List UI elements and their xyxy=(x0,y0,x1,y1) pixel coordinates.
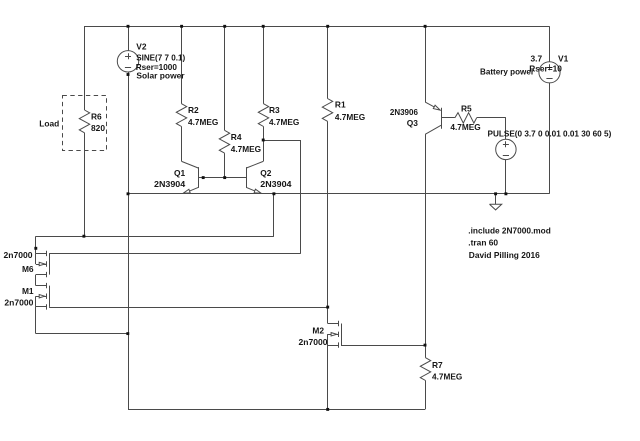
svg-text:.tran 60: .tran 60 xyxy=(468,238,498,248)
svg-text:R4: R4 xyxy=(231,132,242,142)
svg-text:4.7MEG: 4.7MEG xyxy=(432,372,462,382)
svg-text:Load: Load xyxy=(39,119,59,129)
svg-text:Q3: Q3 xyxy=(407,118,419,128)
svg-text:Rser=10: Rser=10 xyxy=(529,64,562,74)
svg-text:4.7MEG: 4.7MEG xyxy=(450,122,480,132)
svg-text:4.7MEG: 4.7MEG xyxy=(231,144,261,154)
svg-text:V1: V1 xyxy=(558,53,569,63)
svg-text:V2: V2 xyxy=(136,41,147,51)
svg-text:820: 820 xyxy=(91,123,105,133)
svg-text:2n7000: 2n7000 xyxy=(299,337,328,347)
svg-text:2N3904: 2N3904 xyxy=(154,179,186,189)
svg-text:2N3904: 2N3904 xyxy=(260,179,292,189)
svg-text:R2: R2 xyxy=(188,105,199,115)
svg-text:.include 2N7000.mod: .include 2N7000.mod xyxy=(468,225,551,235)
svg-text:R5: R5 xyxy=(461,104,472,114)
svg-text:David Pilling 2016: David Pilling 2016 xyxy=(469,250,540,260)
svg-text:3.7: 3.7 xyxy=(531,53,543,63)
svg-text:2n7000: 2n7000 xyxy=(4,250,33,260)
svg-text:M6: M6 xyxy=(22,264,34,274)
svg-text:M1: M1 xyxy=(22,286,34,296)
svg-text:Battery power: Battery power xyxy=(480,66,535,76)
svg-text:4.7MEG: 4.7MEG xyxy=(188,117,218,127)
svg-text:4.7MEG: 4.7MEG xyxy=(269,117,299,127)
svg-text:2n7000: 2n7000 xyxy=(4,298,33,308)
svg-text:M2: M2 xyxy=(312,325,324,335)
svg-text:R7: R7 xyxy=(432,360,443,370)
svg-text:R1: R1 xyxy=(335,100,346,110)
svg-text:Solar power: Solar power xyxy=(136,70,185,80)
svg-text:PULSE(0 3.7 0 0.01 0.01 30 60: PULSE(0 3.7 0 0.01 0.01 30 60 5) xyxy=(488,128,612,138)
svg-text:Q2: Q2 xyxy=(260,168,272,178)
svg-text:R6: R6 xyxy=(91,111,102,121)
svg-text:R3: R3 xyxy=(269,105,280,115)
svg-text:4.7MEG: 4.7MEG xyxy=(335,112,365,122)
svg-text:2N3906: 2N3906 xyxy=(390,107,418,117)
svg-text:Q1: Q1 xyxy=(174,168,186,178)
